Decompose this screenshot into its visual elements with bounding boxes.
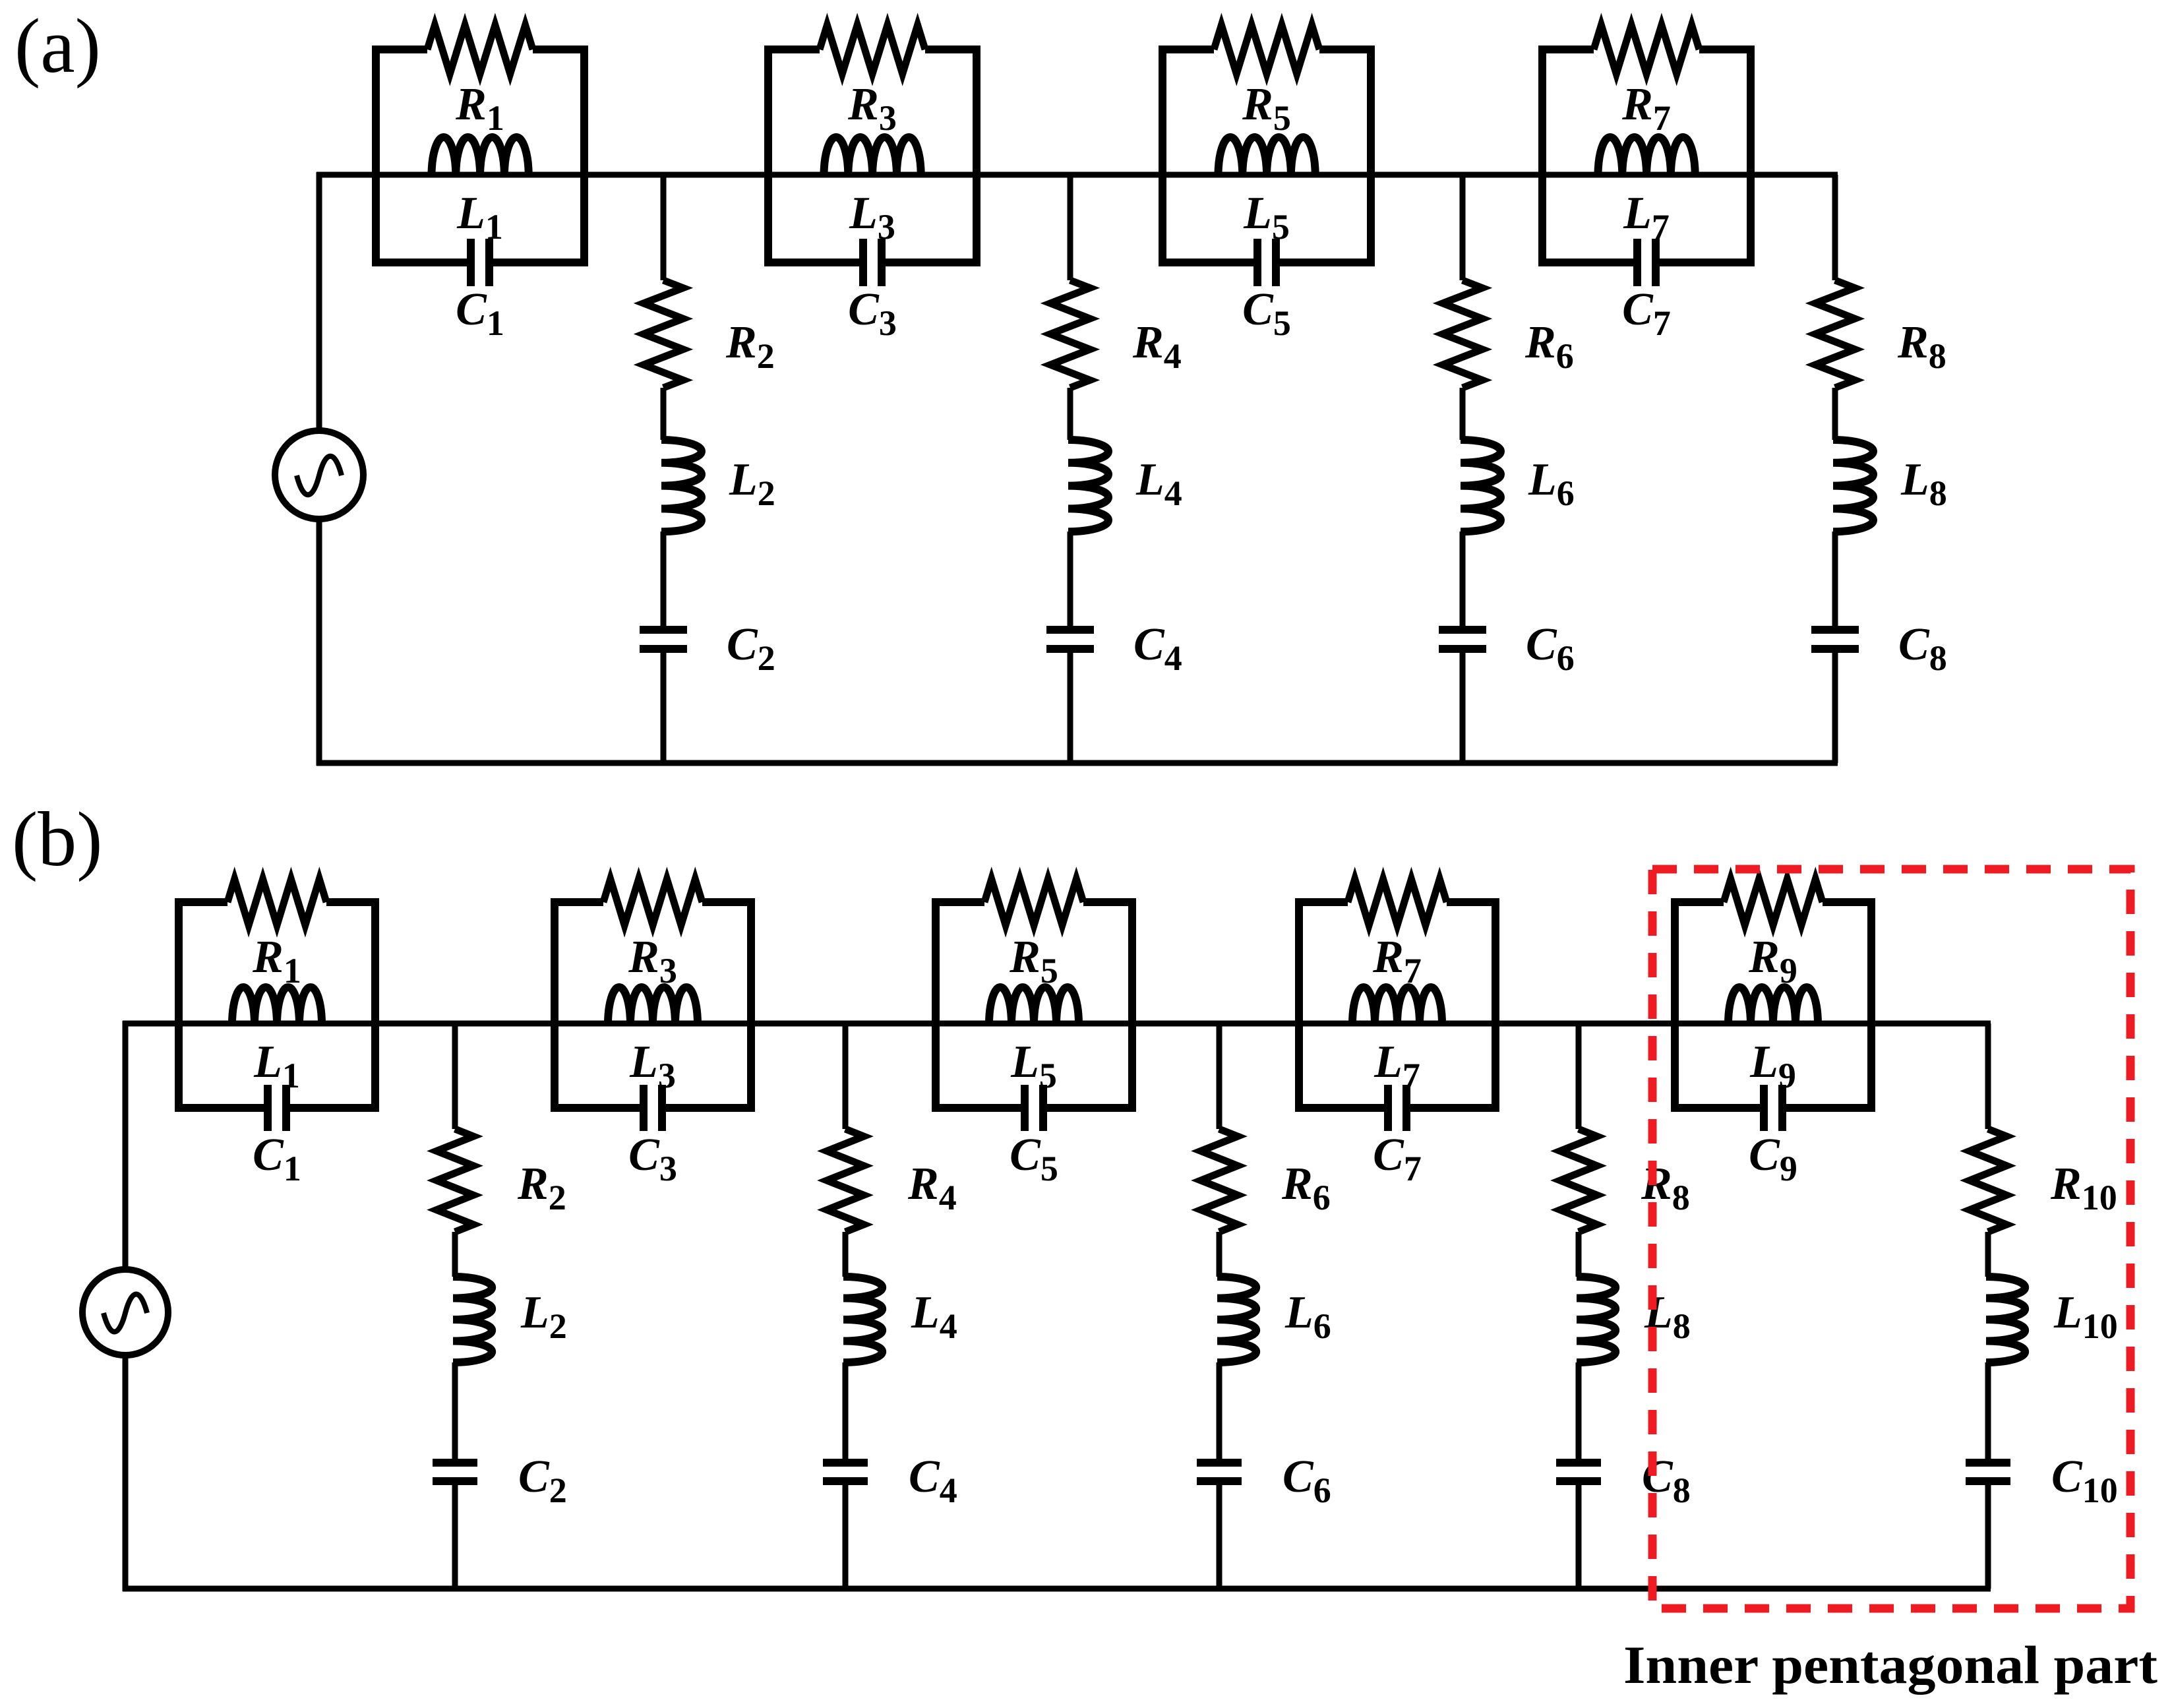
parallel RLC block box (b) unit 9	[1671, 902, 1875, 1108]
wire	[1217, 1485, 1222, 1589]
inductor L1	[432, 137, 529, 175]
inductor L10	[1986, 1277, 2025, 1362]
resistor R3	[603, 879, 702, 925]
wire	[661, 532, 667, 626]
capacitor C8	[1556, 1463, 1601, 1481]
wire	[1068, 388, 1073, 440]
wire	[1985, 1485, 1991, 1589]
wire shunt branch 2 top (a)	[661, 175, 667, 280]
capacitor C7	[1388, 1085, 1406, 1131]
inductor L8	[1577, 1277, 1615, 1362]
wire	[452, 1232, 458, 1277]
wire	[1832, 532, 1838, 626]
capacitor C5	[1025, 1085, 1043, 1131]
wire	[1068, 653, 1073, 763]
wire top rail (a)	[317, 172, 1838, 178]
resistor R4	[1050, 280, 1090, 388]
resistor R6	[1201, 1129, 1238, 1232]
resistor R8	[1560, 1129, 1597, 1232]
inductor L7	[1598, 137, 1695, 175]
inductor L2	[453, 1277, 492, 1362]
highlight box: inner pentagonal part (red dashed)	[1652, 869, 2130, 1608]
capacitor C1	[471, 239, 489, 286]
wire	[1576, 1232, 1582, 1277]
inductor L8	[1833, 440, 1873, 532]
resistor R7	[1594, 25, 1699, 74]
wire	[843, 1362, 849, 1459]
wire	[452, 1362, 458, 1459]
wire top rail (b)	[123, 1021, 1991, 1027]
inductor L4	[1068, 440, 1108, 532]
wire	[1068, 532, 1073, 626]
capacitor C3	[644, 1085, 662, 1131]
wire shunt branch 8 top (b)	[1576, 1023, 1582, 1129]
wire	[452, 1485, 458, 1589]
parallel RLC block box (b) unit 3	[551, 902, 755, 1108]
inductor L7	[1352, 987, 1442, 1024]
capacitor C2	[640, 630, 687, 649]
capacitor C6	[1439, 630, 1486, 649]
wire	[661, 388, 667, 440]
wire bottom rail (b)	[123, 1586, 1991, 1592]
wire	[1576, 1485, 1582, 1589]
capacitor C3	[863, 239, 882, 286]
parallel RLC block box (a) unit 3	[764, 49, 980, 262]
inductor L5	[1219, 137, 1315, 175]
inductor L3	[608, 987, 698, 1024]
inductor L9	[1728, 987, 1818, 1024]
wire	[1460, 653, 1466, 763]
inductor L2	[661, 440, 702, 532]
wire	[843, 1485, 849, 1589]
wire	[1460, 388, 1466, 440]
resistor R9	[1724, 879, 1823, 925]
capacitor C10	[1966, 1463, 2010, 1481]
inductor L5	[989, 987, 1079, 1024]
resistor R1	[427, 25, 533, 74]
capacitor C9	[1764, 1085, 1782, 1131]
resistor R2	[644, 280, 683, 388]
parallel RLC block box (b) unit 5	[932, 902, 1136, 1108]
wire	[1832, 388, 1838, 440]
wire left source branch (a)	[317, 172, 322, 431]
resistor R10	[1970, 1129, 2006, 1232]
wire shunt branch 8 top (a)	[1832, 175, 1838, 280]
parallel RLC block box (b) unit 1	[175, 902, 379, 1108]
wire shunt branch 2 top (b)	[452, 1023, 458, 1129]
capacitor C5	[1257, 239, 1276, 286]
parallel RLC block box (b) unit 7	[1295, 902, 1499, 1108]
svg-text:(a): (a)	[15, 3, 101, 89]
wire	[1217, 1362, 1222, 1459]
capacitor C1	[268, 1085, 286, 1131]
resistor R5	[984, 879, 1083, 925]
inductor L6	[1217, 1277, 1256, 1362]
wire shunt branch 4 top (b)	[843, 1023, 849, 1129]
parallel RLC block box (a) unit 1	[372, 49, 588, 262]
resistor R2	[437, 1129, 473, 1232]
wire	[1985, 1362, 1991, 1459]
wire shunt branch 4 top (a)	[1068, 175, 1073, 280]
wire left source branch (b)	[123, 1021, 129, 1269]
resistor R5	[1214, 25, 1319, 74]
wire shunt branch 10 top (b)	[1985, 1023, 1991, 1129]
inductor L1	[232, 987, 322, 1024]
capacitor C4	[1046, 630, 1094, 649]
wire	[1460, 532, 1466, 626]
capacitor C2	[433, 1463, 477, 1481]
resistor R7	[1348, 879, 1447, 925]
wire	[1576, 1362, 1582, 1459]
wire shunt branch 6 top (b)	[1217, 1023, 1222, 1129]
wire	[1832, 653, 1838, 763]
wire	[1217, 1232, 1222, 1277]
capacitor C8	[1811, 630, 1859, 649]
inductor L3	[824, 137, 921, 175]
capacitor C4	[823, 1463, 868, 1481]
wire shunt branch 6 top (a)	[1460, 175, 1466, 280]
inductor L6	[1461, 440, 1501, 532]
wire bottom rail (a)	[317, 760, 1838, 766]
capacitor C6	[1197, 1463, 1242, 1481]
wire	[1985, 1232, 1991, 1277]
resistor R4	[827, 1129, 864, 1232]
svg-text:(b): (b)	[12, 796, 103, 882]
parallel RLC block box (a) unit 7	[1538, 49, 1755, 262]
svg-text:Inner pentagonal part: Inner pentagonal part	[1623, 1635, 2157, 1695]
inductor L4	[843, 1277, 882, 1362]
wire	[661, 653, 667, 763]
capacitor C7	[1637, 239, 1656, 286]
resistor R6	[1443, 280, 1482, 388]
resistor R3	[820, 25, 925, 74]
AC source V1 (b)	[82, 1269, 168, 1355]
resistor R1	[227, 879, 326, 925]
parallel RLC block box (a) unit 5	[1159, 49, 1375, 262]
wire	[843, 1232, 849, 1277]
resistor R8	[1815, 280, 1855, 388]
AC source V1 (a)	[275, 431, 363, 519]
